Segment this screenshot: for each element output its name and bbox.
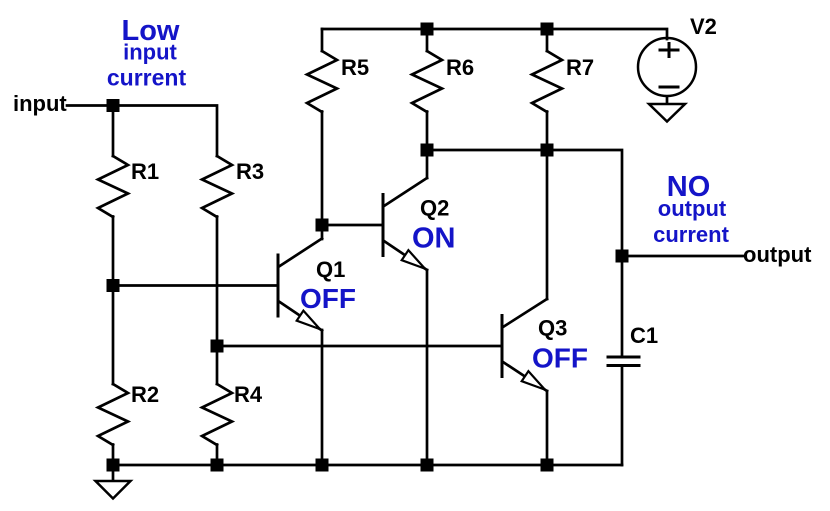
svg-text:R6: R6	[446, 55, 474, 80]
node mid rail R7	[541, 144, 554, 157]
svg-text:input: input	[123, 40, 177, 65]
wire input node to R3 top corner	[113, 106, 217, 157]
wire R1 bottom lead	[112, 217, 115, 286]
wire Q1 collector riser	[321, 225, 324, 239]
wire Q1 base	[113, 284, 276, 287]
svg-text:Q1: Q1	[316, 257, 345, 282]
wire R2 bottom lead	[112, 445, 115, 466]
wire R7 bottom lead	[546, 112, 549, 151]
capacitor C1	[608, 357, 639, 366]
wire output lead	[622, 255, 743, 258]
resistor R5	[307, 51, 337, 112]
svg-text:OFF: OFF	[532, 343, 588, 374]
svg-text:R2: R2	[131, 382, 159, 407]
node mid rail R6	[421, 144, 434, 157]
node ground rail D	[421, 459, 434, 472]
node Q1 collector	[316, 219, 329, 232]
wire R5 top lead	[321, 29, 324, 51]
wire R4 top lead	[216, 346, 219, 384]
node R4 top	[211, 340, 224, 353]
wire R1 top lead	[112, 106, 115, 157]
wire Q2 base	[322, 224, 382, 227]
node Q1 base	[107, 279, 120, 292]
wire ground stub	[112, 465, 115, 481]
wire bottom rail	[113, 464, 622, 467]
node top rail R7	[541, 23, 554, 36]
transistor Q3	[502, 299, 547, 391]
svg-text:V2: V2	[690, 14, 717, 39]
node ground rail C	[316, 459, 329, 472]
voltage source V2	[638, 38, 696, 96]
transistor Q1	[278, 239, 322, 331]
wire Q3 emitter drop	[546, 391, 549, 465]
wire Q2 collector riser	[426, 150, 429, 178]
svg-text:C1: C1	[630, 323, 658, 348]
node ground rail A	[107, 459, 120, 472]
wire R4 bottom lead	[216, 445, 219, 466]
svg-text:current: current	[653, 222, 729, 247]
wire input lead	[67, 104, 110, 107]
svg-text:Q2: Q2	[420, 196, 449, 221]
wire R3 bottom lead	[216, 217, 219, 347]
svg-text:OFF: OFF	[300, 283, 356, 314]
wire Q3 base rail	[217, 345, 501, 348]
resistor R3	[202, 156, 232, 217]
svg-text:input: input	[13, 91, 67, 116]
node output	[616, 250, 629, 263]
wire R6 top lead	[426, 29, 429, 51]
node ground rail B	[211, 459, 224, 472]
ground bottom left	[96, 481, 131, 499]
wire Q3 collector riser	[546, 150, 549, 299]
node top rail R6	[421, 23, 434, 36]
wire top rail to V2	[322, 29, 667, 39]
wire C1 top lead	[621, 256, 624, 356]
svg-text:current: current	[107, 65, 187, 91]
node ground rail E	[541, 459, 554, 472]
transistor Q2	[383, 178, 427, 270]
node input	[107, 99, 120, 112]
wire R6 bottom lead	[426, 112, 429, 151]
wire C1 bottom lead	[621, 366, 624, 465]
svg-text:R7: R7	[566, 55, 594, 80]
resistor R4	[202, 384, 232, 445]
svg-text:R5: R5	[341, 55, 369, 80]
wire R5 bottom lead	[321, 112, 324, 226]
resistor R6	[412, 51, 442, 112]
wire R7 top lead	[546, 29, 549, 51]
wire Q1 emitter drop	[321, 330, 324, 465]
svg-text:output: output	[743, 242, 812, 267]
resistor R7	[532, 51, 562, 112]
resistor R1	[98, 156, 128, 217]
svg-text:Q3: Q3	[538, 316, 567, 341]
wire mid rail to output node	[427, 150, 622, 256]
svg-text:ON: ON	[412, 223, 456, 255]
svg-text:R4: R4	[234, 382, 263, 407]
resistor R2	[98, 384, 128, 445]
ground below V2	[649, 97, 685, 122]
svg-text:output: output	[658, 196, 727, 221]
svg-text:R1: R1	[131, 159, 159, 184]
wire R2 top lead	[112, 286, 115, 385]
svg-text:R3: R3	[236, 159, 264, 184]
wire Q2 emitter drop	[426, 270, 429, 465]
